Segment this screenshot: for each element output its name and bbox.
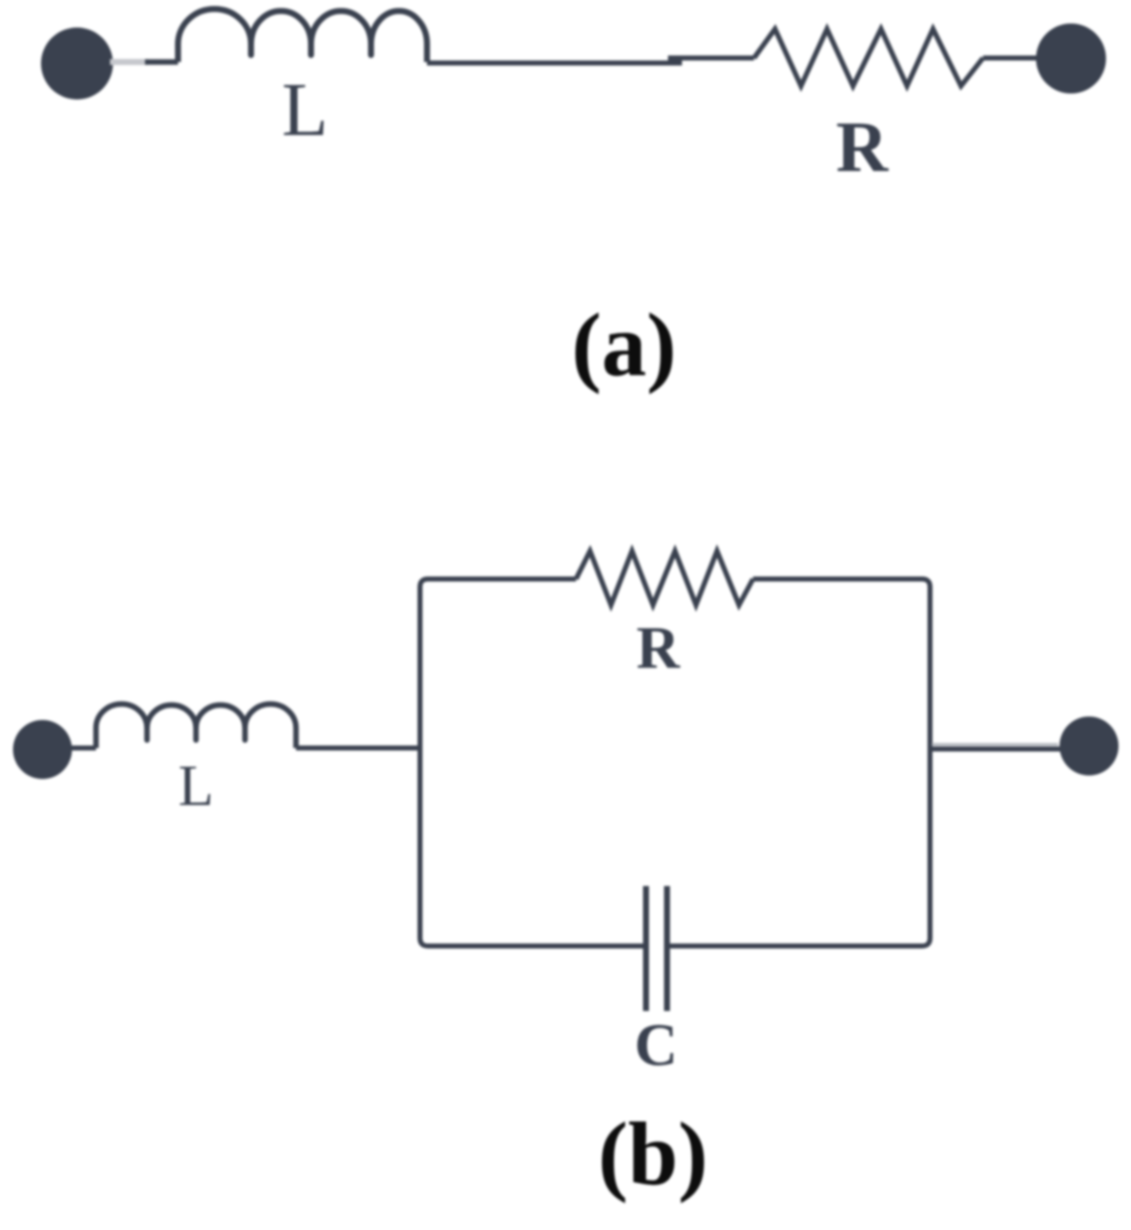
svg-text:(a): (a)	[572, 296, 677, 395]
resistor R (a)	[754, 29, 983, 86]
wire (b) right lead	[932, 747, 1063, 752]
svg-text:(b): (b)	[598, 1105, 708, 1204]
wire (a) left lead	[145, 59, 178, 65]
wire (a) right lead	[983, 56, 1040, 61]
inductor L (a)	[178, 9, 427, 62]
svg-text:L: L	[178, 753, 213, 818]
svg-text:R: R	[836, 107, 889, 187]
terminal node left of circuit (a)	[41, 28, 113, 100]
capacitor C (b) right plate	[664, 886, 670, 1011]
capacitor C (b) left plate	[643, 886, 649, 1011]
resistor R (b) on top branch	[576, 551, 753, 605]
parallel network box left/top/bottom-left segment	[420, 579, 646, 946]
wire (b) from inductor to parallel box	[296, 746, 420, 751]
parallel network box right/top/bottom-right segment	[667, 579, 930, 946]
wire (b) right lead light segment	[932, 743, 1058, 746]
terminal node left of circuit (b)	[13, 720, 72, 779]
svg-text:L: L	[282, 68, 328, 152]
terminal node right of circuit (b)	[1060, 717, 1119, 776]
wire (b) left lead	[68, 746, 96, 751]
wire (a) middle segment to resistor	[668, 56, 754, 61]
inductor L (b)	[96, 704, 296, 748]
svg-text:C: C	[634, 1012, 677, 1078]
svg-text:R: R	[636, 615, 680, 681]
terminal node right of circuit (a)	[1036, 24, 1106, 94]
wire (a) middle segment from inductor	[427, 61, 682, 66]
wire (a) left lead light segment	[110, 59, 148, 65]
